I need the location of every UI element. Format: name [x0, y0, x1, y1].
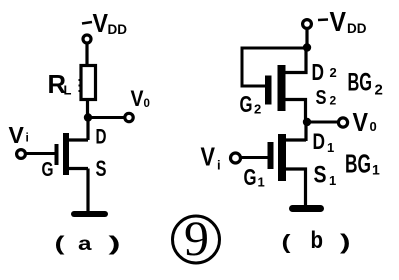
node dot (a) — [84, 113, 92, 121]
ground (b) — [293, 205, 321, 212]
label G1 — [244, 164, 265, 190]
label Vi (b) — [201, 142, 221, 173]
terminal Vi (b) — [231, 153, 241, 163]
wire node down to drain BG1 — [304, 122, 307, 141]
label RL — [48, 69, 72, 99]
svg-text:BG: BG — [345, 149, 371, 179]
wire VDD to resistor (a) — [85, 43, 88, 66]
svg-text:V: V — [93, 8, 109, 38]
resistor RL — [81, 66, 96, 100]
label V0 (b) — [353, 107, 377, 137]
drain arm Q1 (a) — [68, 138, 88, 141]
svg-text:V: V — [201, 142, 216, 172]
svg-text:D: D — [312, 59, 325, 85]
svg-text:): ) — [109, 234, 121, 256]
node dot V0 (b) — [303, 118, 311, 126]
label -VDD (b) — [318, 6, 367, 37]
gate bar BG2 — [265, 76, 272, 105]
feedback wire gate BG2 — [242, 48, 307, 86]
svg-text:V: V — [131, 86, 144, 111]
svg-text:G: G — [240, 91, 253, 117]
svg-text:2: 2 — [375, 82, 383, 99]
terminal V0 (a) — [125, 113, 133, 121]
svg-text:9: 9 — [184, 210, 209, 266]
resistor hatch ticks — [79, 80, 82, 91]
svg-text:0: 0 — [370, 119, 377, 134]
svg-text:): ) — [340, 231, 351, 254]
gate wire BG1 — [241, 156, 268, 159]
label -VDD (a) — [82, 8, 127, 38]
label D2 — [312, 59, 337, 85]
terminal -VDD (b) — [303, 20, 312, 29]
junction dot (b) — [303, 43, 311, 51]
figure number circle — [173, 216, 220, 263]
source arm Q1 (a) — [68, 167, 88, 170]
svg-text:1: 1 — [258, 175, 265, 190]
svg-text:1: 1 — [329, 173, 336, 188]
terminal -VDD (a) — [83, 35, 91, 43]
source arm BG2 — [285, 100, 306, 120]
wire node to V0 (a) — [88, 116, 125, 119]
svg-text:DD: DD — [108, 22, 128, 37]
channel bar Q1 (a) — [63, 133, 69, 175]
ground (a) — [74, 211, 105, 217]
label G2 — [240, 91, 262, 117]
source arm BG1 — [285, 169, 306, 206]
terminal Vi (a) — [17, 150, 26, 159]
label S1 — [314, 162, 337, 189]
svg-text:0: 0 — [144, 98, 150, 110]
svg-text:S: S — [314, 162, 327, 189]
svg-text:1: 1 — [327, 140, 334, 155]
svg-text:L: L — [64, 83, 72, 98]
svg-text:i: i — [26, 131, 29, 145]
label (b) — [282, 227, 351, 254]
wire node down to drain (a) — [86, 118, 89, 141]
svg-text:D: D — [96, 126, 107, 149]
svg-text:2: 2 — [254, 102, 261, 117]
svg-text:b: b — [311, 227, 324, 254]
wire resistor to node (a) — [86, 99, 89, 119]
label BG1 — [345, 149, 380, 179]
svg-text:(: ( — [55, 234, 65, 256]
svg-text:DD: DD — [347, 21, 367, 36]
label Vi (a) — [9, 122, 29, 148]
label D1 — [313, 129, 335, 155]
drain arm BG1 — [285, 138, 306, 141]
label (a) — [55, 234, 121, 256]
svg-text:a: a — [78, 234, 92, 255]
svg-text:1: 1 — [372, 162, 380, 178]
svg-text:S: S — [96, 156, 107, 181]
gate bar BG1 — [268, 142, 274, 169]
terminal V0 (b) — [338, 118, 347, 127]
svg-text:G: G — [42, 159, 54, 181]
gate wire Q1 (a) — [27, 152, 55, 155]
svg-text:S: S — [316, 87, 327, 109]
svg-text:V: V — [9, 122, 25, 148]
svg-text:i: i — [217, 158, 221, 173]
channel bar BG2 — [278, 65, 286, 111]
label S2 — [316, 87, 337, 109]
svg-text:2: 2 — [330, 65, 337, 80]
wire VDD to junction (b) — [305, 29, 308, 49]
svg-text:V: V — [353, 107, 369, 137]
label BG2 — [348, 69, 383, 99]
channel bar BG1 — [278, 134, 286, 181]
svg-text:V: V — [330, 6, 347, 37]
svg-text:BG: BG — [348, 69, 373, 97]
wire node to V0 (b) — [307, 121, 338, 124]
drain arm BG2 — [285, 48, 306, 73]
gate bar Q1 (a) — [55, 144, 59, 165]
wire source to ground (a) — [86, 169, 89, 213]
svg-text:G: G — [244, 164, 257, 190]
svg-text:2: 2 — [330, 94, 337, 108]
label V0 (a) — [131, 86, 150, 111]
svg-text:(: ( — [282, 232, 291, 254]
svg-text:D: D — [313, 129, 326, 154]
